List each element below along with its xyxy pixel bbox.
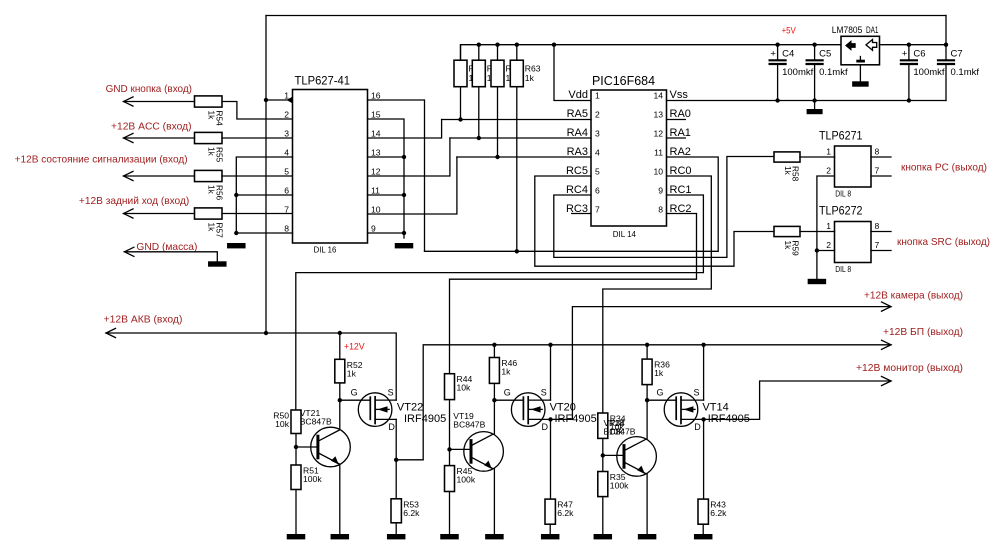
wire R52 stubs bbox=[339, 333, 341, 400]
label R43 bbox=[710, 500, 727, 518]
svg-text:1k: 1k bbox=[207, 111, 217, 121]
wire emitter VT3 bbox=[646, 474, 648, 534]
wire R56 to pin 5 bbox=[222, 175, 293, 177]
label +12В БП (выход) bbox=[883, 326, 963, 338]
svg-text:10k: 10k bbox=[457, 383, 472, 393]
label +12В монитор (выход) bbox=[856, 362, 963, 374]
svg-text:4: 4 bbox=[284, 148, 289, 158]
wire gate node VT3 bbox=[645, 398, 676, 402]
svg-text:7: 7 bbox=[875, 240, 880, 250]
svg-text:100k: 100k bbox=[610, 481, 629, 491]
transistor VT19 BC847B bbox=[464, 432, 504, 472]
label R50 bbox=[273, 411, 289, 430]
svg-text:12: 12 bbox=[653, 129, 663, 139]
label +12В камера (выход) bbox=[864, 290, 963, 302]
label PIC16F684 title bbox=[592, 73, 655, 88]
label LM7805 DA1 bbox=[832, 25, 879, 35]
svg-text:VT14: VT14 bbox=[702, 402, 728, 414]
label R53 bbox=[403, 499, 420, 518]
svg-text:RC5: RC5 bbox=[566, 165, 588, 177]
label R58 value bbox=[783, 166, 801, 182]
svg-text:C4: C4 bbox=[782, 48, 794, 59]
resistor R51 100k bbox=[291, 465, 301, 490]
stub RA0 bbox=[667, 119, 686, 121]
svg-text:TLP6272: TLP6272 bbox=[819, 204, 863, 218]
resistor R58 1k bbox=[774, 152, 800, 162]
svg-text:Vss: Vss bbox=[670, 89, 689, 101]
label R45 bbox=[457, 466, 476, 485]
label D stage 3 bbox=[694, 422, 701, 432]
svg-text:100k: 100k bbox=[457, 475, 476, 485]
svg-text:DA1: DA1 bbox=[866, 25, 879, 35]
transistor VT14 IRF4905 bbox=[664, 393, 703, 427]
label S stage 2 bbox=[541, 387, 547, 397]
svg-text:13: 13 bbox=[371, 148, 381, 158]
svg-text:2: 2 bbox=[826, 166, 831, 176]
svg-text:14: 14 bbox=[653, 91, 663, 101]
resistor R52 1k bbox=[335, 359, 345, 383]
label R46 bbox=[501, 358, 517, 377]
optocoupler TLP6271 body bbox=[835, 146, 872, 187]
wire R58 to pin1 bbox=[800, 156, 835, 158]
svg-text:0.1mkf: 0.1mkf bbox=[951, 67, 980, 78]
stub RA1 bbox=[667, 137, 686, 139]
wire RA5 net bbox=[442, 119, 591, 121]
svg-text:DIL 14: DIL 14 bbox=[613, 229, 636, 239]
wire R35 to ground bbox=[602, 497, 604, 534]
svg-text:PIC16F684: PIC16F684 bbox=[592, 73, 655, 88]
label G stage 3 bbox=[657, 387, 664, 397]
svg-text:11: 11 bbox=[654, 148, 663, 158]
svg-text:2: 2 bbox=[284, 110, 289, 120]
svg-text:8: 8 bbox=[875, 221, 880, 231]
svg-text:RA2: RA2 bbox=[670, 146, 691, 158]
svg-text:2: 2 bbox=[595, 110, 600, 120]
svg-text:D: D bbox=[694, 422, 701, 432]
wire TLP pins 15-13-11-9 ground bbox=[368, 119, 407, 238]
ground масса bbox=[208, 261, 227, 266]
svg-text:7: 7 bbox=[284, 205, 289, 215]
svg-text:1k: 1k bbox=[654, 368, 664, 378]
label TLP6272 title bbox=[819, 204, 863, 218]
svg-text:DIL 8: DIL 8 bbox=[835, 264, 851, 274]
resistor R50 10k bbox=[291, 410, 301, 434]
pin numbers TLP627-41 right bbox=[371, 91, 381, 234]
svg-text:C5: C5 bbox=[819, 48, 831, 59]
label S stage 1 bbox=[388, 387, 394, 397]
wire TLP6271 pin2 ground bbox=[815, 176, 835, 279]
arrow LM7805 output bbox=[845, 40, 856, 51]
svg-text:16: 16 bbox=[371, 91, 381, 101]
svg-text:11: 11 bbox=[371, 186, 380, 196]
svg-text:+12В задний ход (вход): +12В задний ход (вход) bbox=[79, 195, 189, 207]
svg-text:1k: 1k bbox=[207, 185, 217, 195]
wire R47 to ground bbox=[549, 524, 551, 534]
svg-text:15: 15 bbox=[371, 110, 381, 120]
label R51 bbox=[303, 466, 322, 485]
transistor VT18 BC847B bbox=[617, 437, 657, 477]
wire +12В камера bbox=[548, 302, 891, 422]
label DIL 8 TLP6272 bbox=[835, 264, 851, 274]
label R44 bbox=[457, 374, 473, 393]
label TLP627-41 title bbox=[295, 74, 351, 88]
label +12В состояние сигнализации (вход) bbox=[15, 153, 188, 165]
svg-text:1k: 1k bbox=[347, 368, 357, 378]
wire Vdd bbox=[554, 45, 591, 101]
svg-text:1k: 1k bbox=[207, 147, 217, 157]
svg-text:10k: 10k bbox=[275, 419, 290, 429]
pin numbers TLP627-41 left bbox=[284, 91, 289, 234]
wire RA4 net bbox=[450, 137, 591, 139]
svg-text:1k: 1k bbox=[525, 73, 535, 83]
svg-text:TLP6271: TLP6271 bbox=[819, 128, 863, 142]
stub TLP6272 pin8 bbox=[871, 231, 891, 233]
svg-text:RA0: RA0 bbox=[670, 108, 691, 120]
svg-text:3: 3 bbox=[284, 129, 289, 139]
wire base node stage 2 bbox=[447, 400, 471, 466]
svg-text:Vdd: Vdd bbox=[568, 89, 588, 101]
wire base node stage 3 bbox=[601, 438, 624, 471]
resistor R63 1k bbox=[510, 60, 523, 86]
wire Vss rail bbox=[667, 98, 947, 102]
label D stage 1 bbox=[388, 422, 395, 432]
wire input row R55 bbox=[124, 133, 195, 142]
svg-text:1k: 1k bbox=[501, 367, 511, 377]
label G stage 1 bbox=[351, 387, 358, 397]
label +12В АКВ (вход) bbox=[104, 314, 183, 326]
resistor R57 1k bbox=[195, 208, 223, 219]
label C5 value bbox=[819, 48, 848, 78]
resistor R47 6.2k bbox=[545, 499, 555, 524]
svg-text:C7: C7 bbox=[951, 48, 963, 59]
ground R51 bbox=[287, 534, 306, 539]
resistor R36 1k bbox=[642, 359, 652, 385]
capacitor C6 bbox=[901, 45, 917, 101]
junction AKB-R52 bbox=[338, 331, 342, 335]
svg-text:1k: 1k bbox=[207, 223, 217, 233]
wire TLP pin10 to RA3 bbox=[368, 157, 457, 214]
svg-text:+12V: +12V bbox=[344, 342, 365, 353]
label R34 value overlap bbox=[609, 418, 625, 437]
svg-text:4: 4 bbox=[595, 148, 600, 158]
label GND кнопка (вход) bbox=[106, 83, 192, 95]
ground under C5 bbox=[807, 101, 823, 115]
svg-text:8: 8 bbox=[875, 147, 880, 157]
svg-text:кнопка SRC (выход): кнопка SRC (выход) bbox=[897, 236, 990, 248]
stub TLP6271 pin7 bbox=[871, 175, 891, 177]
wire R61 stubs bbox=[478, 45, 480, 138]
pin numbers PIC right bbox=[653, 91, 663, 215]
wire R51 to ground bbox=[295, 490, 297, 535]
wire collector VT2 bbox=[493, 400, 495, 433]
resistor R59 1k bbox=[774, 226, 800, 236]
ground TLP output side bbox=[395, 243, 414, 248]
wire drain VT2 bbox=[550, 419, 552, 499]
pin names PIC right bbox=[670, 89, 692, 215]
label GND (масса) bbox=[136, 241, 197, 253]
wire R43 to ground bbox=[702, 524, 704, 534]
wire RC4 net bbox=[554, 157, 774, 258]
wire collector VT1 bbox=[339, 400, 341, 429]
svg-text:D: D bbox=[542, 422, 549, 432]
junction AKB-vertical bbox=[264, 331, 268, 335]
svg-text:6: 6 bbox=[284, 186, 289, 196]
wire +12В АКВ bbox=[106, 328, 396, 400]
svg-text:10: 10 bbox=[371, 205, 381, 215]
wire RC2 net bbox=[450, 214, 697, 374]
label +12V bbox=[344, 342, 365, 353]
pin numbers PIC left bbox=[595, 91, 600, 215]
ground marker inside LM7805 bbox=[856, 57, 865, 63]
wire TLP pins 4-6-8 ground bbox=[234, 157, 292, 235]
svg-text:8: 8 bbox=[658, 205, 663, 215]
label VT20 IRF4905 bbox=[550, 402, 597, 425]
svg-text:RA3: RA3 bbox=[567, 146, 588, 158]
wire RC0 net bbox=[603, 176, 712, 413]
svg-text:2: 2 bbox=[826, 240, 831, 250]
svg-text:3: 3 bbox=[595, 129, 600, 139]
svg-text:TLP627-41: TLP627-41 bbox=[295, 74, 351, 88]
svg-text:100mkf: 100mkf bbox=[782, 67, 814, 78]
wire R54 to pin 2 bbox=[222, 102, 293, 120]
transistor VT21 BC847B bbox=[311, 427, 351, 467]
label +5V bbox=[782, 26, 797, 37]
svg-text:BC847B: BC847B bbox=[300, 417, 332, 427]
svg-text:BC847B: BC847B bbox=[453, 420, 485, 430]
wire R53 to ground bbox=[395, 523, 397, 534]
svg-text:0.1mkf: 0.1mkf bbox=[819, 67, 848, 78]
svg-text:6.2k: 6.2k bbox=[403, 508, 420, 518]
svg-text:R63: R63 bbox=[525, 64, 541, 74]
wire R45 to ground bbox=[449, 492, 451, 535]
ground emitter VT1 bbox=[331, 534, 350, 539]
label кнопка SRC (выход) bbox=[897, 236, 990, 248]
svg-text:RA4: RA4 bbox=[567, 127, 588, 139]
stub RC3 bbox=[572, 213, 591, 215]
svg-text:100k: 100k bbox=[303, 474, 322, 484]
svg-text:GND кнопка (вход): GND кнопка (вход) bbox=[106, 83, 192, 95]
label R56 value bbox=[207, 185, 225, 201]
resistor R61 1k bbox=[472, 60, 485, 86]
svg-text:RA5: RA5 bbox=[567, 108, 588, 120]
ground R35 bbox=[594, 534, 613, 539]
svg-text:+: + bbox=[770, 49, 776, 60]
svg-text:S: S bbox=[388, 387, 394, 397]
wire gate node VT1 bbox=[338, 398, 371, 402]
svg-text:G: G bbox=[351, 387, 358, 397]
label R62 bbox=[506, 64, 522, 84]
pin numbers TLP6272 bbox=[826, 221, 879, 250]
label DIL 8 TLP6271 bbox=[835, 189, 851, 199]
transistor VT22 IRF4905 bbox=[358, 393, 396, 427]
label R35 bbox=[610, 472, 629, 491]
voltage regulator DA1 LM7805 body bbox=[841, 36, 880, 65]
wire input row R54 bbox=[124, 97, 195, 106]
svg-text:1: 1 bbox=[826, 147, 831, 157]
wire R57 to pin 7 bbox=[222, 213, 293, 215]
label R61 bbox=[487, 64, 503, 84]
svg-text:7: 7 bbox=[595, 205, 600, 215]
label R52 bbox=[347, 360, 363, 379]
svg-text:9: 9 bbox=[658, 186, 663, 196]
label R63 bbox=[525, 64, 541, 84]
svg-text:VT20: VT20 bbox=[550, 402, 576, 414]
label VT21 BC847B bbox=[300, 408, 332, 427]
resistor R35 100k bbox=[598, 472, 608, 497]
svg-text:+12В АКВ (вход): +12В АКВ (вход) bbox=[104, 314, 183, 326]
label G stage 2 bbox=[504, 387, 511, 397]
wire RC1 net bbox=[296, 195, 704, 410]
wire S riser stage 2 bbox=[550, 345, 552, 400]
wire R63 stubs bbox=[516, 45, 518, 252]
ground R45 bbox=[440, 534, 459, 539]
label R54 value bbox=[207, 111, 225, 127]
stub TLP6272 pin7 bbox=[871, 250, 891, 252]
wire collector VT3 bbox=[646, 400, 648, 438]
wire drain VT1 bbox=[395, 419, 397, 498]
wire gate node VT2 bbox=[492, 398, 523, 402]
wire +12V AKB top rail bbox=[266, 16, 946, 334]
capacitor C5 bbox=[807, 45, 823, 101]
label VT19 BC847B bbox=[453, 411, 485, 430]
junction R61 RA4 bbox=[477, 136, 481, 140]
ground TLP627x bbox=[808, 279, 827, 284]
optocoupler U TLP627-41 body bbox=[293, 90, 368, 244]
svg-text:10: 10 bbox=[653, 167, 663, 177]
svg-text:+12В монитор (выход): +12В монитор (выход) bbox=[856, 362, 963, 374]
wire +12В БП rail bbox=[394, 340, 891, 462]
label R60 bbox=[469, 64, 485, 84]
wire drain VT3 bbox=[703, 419, 705, 499]
label VT18 BC847B bbox=[604, 418, 636, 437]
wire TLP pin1 to +12 line bbox=[264, 98, 293, 102]
svg-text:RC4: RC4 bbox=[566, 184, 588, 196]
label VT14 IRF4905 bbox=[702, 402, 750, 425]
wire R59 to pin1 bbox=[800, 231, 835, 233]
wire TLP pin12 to RA4 bbox=[368, 138, 450, 176]
optocoupler TLP6272 body bbox=[835, 222, 872, 263]
ground R53 bbox=[387, 534, 406, 539]
svg-text:13: 13 bbox=[653, 110, 663, 120]
wire TLP pin14 to RA5 bbox=[368, 120, 442, 139]
svg-text:10k: 10k bbox=[609, 427, 624, 437]
svg-text:+12В состояние сигнализации (в: +12В состояние сигнализации (вход) bbox=[15, 153, 188, 165]
arrow LM7805 input bbox=[866, 40, 877, 51]
svg-text:1: 1 bbox=[595, 91, 600, 101]
label R47 bbox=[557, 500, 574, 518]
svg-text:14: 14 bbox=[371, 129, 381, 139]
label S stage 3 bbox=[694, 387, 700, 397]
svg-text:6: 6 bbox=[595, 186, 600, 196]
capacitor C4 bbox=[770, 45, 786, 101]
wire +12В монитор bbox=[701, 376, 891, 421]
svg-text:RC0: RC0 bbox=[670, 165, 692, 177]
resistor R43 6.2k bbox=[698, 499, 708, 524]
svg-text:DIL 16: DIL 16 bbox=[314, 245, 337, 255]
wire R60 stubs bbox=[460, 45, 462, 120]
label +12В ACC (вход) bbox=[111, 121, 192, 133]
svg-text:кнопка PC (выход): кнопка PC (выход) bbox=[901, 162, 987, 174]
wire GND масса bbox=[124, 247, 217, 261]
transistor VT20 IRF4905 bbox=[511, 393, 550, 427]
wire input row R57 bbox=[124, 209, 195, 218]
ground emitter VT2 bbox=[485, 534, 504, 539]
wire RA3 net bbox=[457, 156, 591, 158]
wire R62 stubs bbox=[497, 45, 499, 157]
resistor R46 1k bbox=[489, 358, 499, 384]
label DIL 16 bbox=[314, 245, 337, 255]
svg-text:5: 5 bbox=[284, 167, 289, 177]
resistor R55 1k bbox=[195, 132, 223, 143]
wire TLP pin16 bbox=[368, 100, 425, 251]
label C6 value bbox=[902, 48, 945, 78]
resistor R45 100k bbox=[445, 466, 455, 492]
svg-text:5: 5 bbox=[595, 167, 600, 177]
svg-text:IRF4905: IRF4905 bbox=[708, 413, 750, 425]
wire LM7805 right rail bbox=[880, 43, 949, 47]
label DIL 14 bbox=[613, 229, 636, 239]
wire R36 stubs bbox=[646, 345, 648, 400]
svg-text:8: 8 bbox=[284, 224, 289, 234]
resistor R56 1k bbox=[195, 170, 223, 181]
pin names PIC left bbox=[566, 89, 588, 215]
microcontroller U PIC16F684 body bbox=[591, 90, 667, 226]
wire R55 to pin 3 bbox=[222, 137, 293, 139]
pin1 marker TLP627-41 bbox=[287, 97, 293, 104]
wire R46 stubs bbox=[493, 345, 495, 400]
ground emitter VT3 bbox=[638, 534, 657, 539]
wire emitter VT1 bbox=[339, 465, 341, 534]
svg-text:+12В ACC (вход): +12В ACC (вход) bbox=[111, 121, 192, 133]
svg-text:IRF4905: IRF4905 bbox=[404, 413, 446, 425]
label D stage 2 bbox=[542, 422, 549, 432]
pin numbers TLP6271 bbox=[826, 147, 879, 176]
wire base node stage 1 bbox=[294, 434, 318, 466]
junction R62 RA3 bbox=[495, 155, 499, 159]
ground LM7805 bbox=[852, 65, 869, 87]
resistor R53 6.2k bbox=[391, 499, 401, 523]
resistor R54 1k bbox=[195, 96, 223, 107]
stub TLP6271 pin8 bbox=[871, 156, 891, 158]
label R57 value bbox=[207, 223, 225, 239]
svg-text:7: 7 bbox=[875, 166, 880, 176]
svg-text:1k: 1k bbox=[783, 241, 793, 251]
svg-text:1k: 1k bbox=[783, 166, 793, 176]
wire input row R56 bbox=[124, 171, 195, 180]
svg-text:12: 12 bbox=[371, 167, 381, 177]
svg-text:1: 1 bbox=[826, 221, 831, 231]
svg-text:D: D bbox=[388, 422, 395, 432]
capacitor C7 bbox=[938, 45, 954, 101]
label C7 value bbox=[951, 48, 980, 78]
svg-text:LM7805: LM7805 bbox=[832, 25, 863, 35]
label VT22 IRF4905 bbox=[397, 402, 446, 425]
ground R47 bbox=[541, 534, 560, 539]
svg-text:VT22: VT22 bbox=[397, 402, 423, 414]
svg-text:+: + bbox=[902, 49, 908, 60]
svg-text:RC1: RC1 bbox=[670, 184, 692, 196]
svg-text:IRF4905: IRF4905 bbox=[555, 413, 597, 425]
ground TLP input side bbox=[227, 243, 246, 248]
svg-text:S: S bbox=[541, 387, 547, 397]
wire RA2 net bbox=[425, 157, 719, 251]
wire RC5 net bbox=[535, 176, 774, 266]
label R36 bbox=[654, 360, 670, 379]
svg-text:C6: C6 bbox=[913, 48, 925, 59]
wire emitter VT2 bbox=[493, 469, 495, 534]
svg-text:S: S bbox=[694, 387, 700, 397]
svg-text:6.2k: 6.2k bbox=[557, 508, 574, 518]
